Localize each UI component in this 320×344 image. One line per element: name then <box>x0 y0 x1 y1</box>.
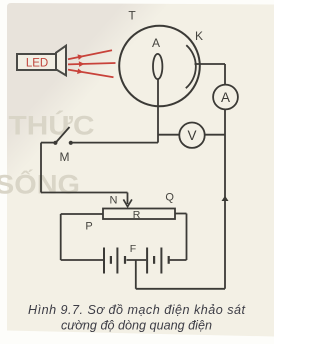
wire rheostat Q side vertical <box>186 214 188 261</box>
switch M blade <box>55 127 69 143</box>
cathode K electrode (arc) <box>186 45 196 88</box>
anode A electrode (ellipse) <box>153 54 162 79</box>
svg-text:Hình 9.7. Sơ đồ mạch điện khảo: Hình 9.7. Sơ đồ mạch điện khảo sát <box>28 303 246 317</box>
wire battery left lead <box>61 259 103 261</box>
svg-text:THỨC: THỨC <box>9 110 95 141</box>
light ray bottom arrowhead <box>77 69 83 75</box>
wire battery center tap <box>135 260 137 289</box>
wire switch left stub <box>41 142 54 144</box>
wire rheostat Q side horizontal <box>175 213 187 215</box>
battery cell 4 short plate <box>168 256 170 264</box>
light ray top <box>68 50 112 59</box>
wire battery right lead <box>170 259 187 261</box>
svg-text:A: A <box>152 36 160 50</box>
wire battery middle bar <box>127 259 147 261</box>
light ray middle <box>68 63 116 64</box>
wire anode lead down from tube <box>157 79 159 143</box>
svg-text:LED: LED <box>26 58 48 70</box>
current direction arrowhead on right wire <box>222 196 229 201</box>
switch M right contact <box>69 141 73 145</box>
LED body <box>17 54 57 70</box>
svg-text:SỐNG: SỐNG <box>0 168 80 200</box>
light ray bottom <box>68 70 114 78</box>
battery cell 3 long plate <box>146 248 148 274</box>
wire voltmeter left <box>158 134 179 136</box>
wire voltmeter right <box>205 134 225 136</box>
battery cell 2 long plate <box>116 248 118 274</box>
svg-text:M: M <box>60 150 70 164</box>
light ray top arrowhead <box>78 54 84 60</box>
battery cell 4 long plate <box>160 248 162 274</box>
svg-text:K: K <box>195 29 203 43</box>
wire left vertical below switch <box>40 143 42 193</box>
svg-text:T: T <box>128 9 136 23</box>
phototube T envelope <box>119 26 200 107</box>
battery cell 1 long plate <box>103 248 105 274</box>
wire anode corner to switch <box>71 142 158 144</box>
svg-text:V: V <box>187 128 196 143</box>
wire right vertical upper (corner to ammeter) <box>224 64 226 85</box>
battery cell 1 short plate <box>110 256 112 264</box>
wiper arrowhead <box>123 199 131 206</box>
svg-text:A: A <box>221 90 230 105</box>
wire rheostat P side vertical <box>60 214 62 260</box>
switch M left contact <box>53 141 57 145</box>
wire rheostat P side horizontal <box>61 213 103 215</box>
LED horn <box>56 46 66 76</box>
light ray middle arrowhead <box>79 61 85 67</box>
voltmeter V body <box>179 123 204 148</box>
wire bottom horizontal <box>136 288 225 290</box>
rheostat R body <box>103 209 175 220</box>
svg-text:P: P <box>85 221 92 233</box>
svg-text:R: R <box>133 209 141 221</box>
battery cell 2 short plate <box>124 256 126 264</box>
svg-text:N: N <box>110 195 118 207</box>
wire horizontal to wiper <box>41 192 128 194</box>
ammeter A body <box>213 85 238 110</box>
svg-text:Q: Q <box>165 192 174 204</box>
svg-text:cường độ dòng quang điện: cường độ dòng quang điện <box>61 319 212 333</box>
wire right vertical lower (ammeter to bottom corner) <box>224 110 226 289</box>
svg-text:F: F <box>130 243 136 255</box>
wire cathode to top-right corner <box>195 63 226 65</box>
wiper stem <box>127 193 129 205</box>
battery cell 3 short plate <box>153 256 155 264</box>
